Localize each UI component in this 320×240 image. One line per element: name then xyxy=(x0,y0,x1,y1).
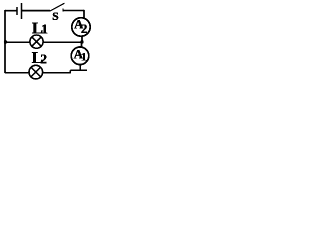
label S xyxy=(52,11,58,23)
label L2 xyxy=(32,48,48,67)
switch right contact tick xyxy=(62,9,64,12)
battery short plate xyxy=(16,7,18,15)
ammeter A1 xyxy=(71,46,89,64)
wire L1 row left xyxy=(5,41,30,43)
junction node left xyxy=(4,40,7,43)
wire left vertical xyxy=(4,10,6,73)
wire battery to switch xyxy=(22,10,51,12)
switch S blade xyxy=(50,3,65,11)
wire top-left xyxy=(5,10,17,12)
label L1 xyxy=(32,18,48,37)
wire switch to top-right corner xyxy=(63,10,84,12)
wire top-right vertical into A2 xyxy=(83,10,85,18)
svg-text:1: 1 xyxy=(81,50,87,64)
lamp L1 xyxy=(30,35,43,48)
ammeter A2 xyxy=(72,17,90,37)
wire junction to A1 xyxy=(81,42,83,47)
svg-text:2: 2 xyxy=(40,52,47,67)
svg-text:S: S xyxy=(52,11,58,23)
wire L2 row right xyxy=(43,72,71,74)
junction node right xyxy=(80,40,83,43)
wire A2 bottom stub xyxy=(81,36,83,42)
wire L1 row right xyxy=(44,41,82,43)
wire bottom jog xyxy=(69,70,71,73)
wire bottom right xyxy=(70,69,87,71)
svg-text:1: 1 xyxy=(41,22,48,37)
svg-text:2: 2 xyxy=(81,21,88,36)
wire A1 bottom stub xyxy=(79,65,81,71)
lamp L2 xyxy=(29,65,43,79)
battery long plate xyxy=(21,3,23,19)
wire L2 row left xyxy=(5,72,29,74)
